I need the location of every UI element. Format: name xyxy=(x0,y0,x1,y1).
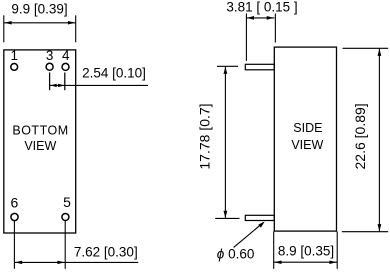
svg-text:6: 6 xyxy=(11,194,19,210)
svg-text:SIDE: SIDE xyxy=(293,121,322,135)
svg-text:17.78 [0.7]: 17.78 [0.7] xyxy=(197,103,213,169)
svg-text:5: 5 xyxy=(63,194,71,210)
svg-text:7.62 [0.30]: 7.62 [0.30] xyxy=(74,244,138,259)
svg-text:9.9 [0.39]: 9.9 [0.39] xyxy=(11,1,67,16)
svg-text:ϕ 0.60: ϕ 0.60 xyxy=(217,246,255,261)
svg-text:VIEW: VIEW xyxy=(291,138,323,152)
svg-text:1: 1 xyxy=(11,48,19,63)
svg-text:3: 3 xyxy=(46,48,54,63)
svg-text:3.81 [ 0.15 ]: 3.81 [ 0.15 ] xyxy=(226,0,297,15)
svg-text:4: 4 xyxy=(62,48,70,63)
svg-text:22.6 [0.89]: 22.6 [0.89] xyxy=(352,103,368,169)
svg-text:2.54 [0.10]: 2.54 [0.10] xyxy=(82,65,146,80)
svg-text:VIEW: VIEW xyxy=(24,139,56,153)
svg-text:BOTTOM: BOTTOM xyxy=(12,124,68,138)
svg-text:8.9 [0.35]: 8.9 [0.35] xyxy=(278,244,334,259)
